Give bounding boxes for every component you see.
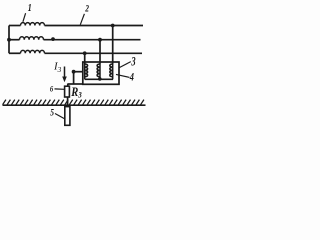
junction dot in-box bus <box>98 77 102 81</box>
wire: in-box neutral bus <box>85 78 113 80</box>
svg-text:R3: R3 <box>70 84 82 100</box>
terminal dot on middle line <box>51 37 55 41</box>
wire: resistor to ground <box>67 97 69 107</box>
wire: neutral down wire <box>73 72 75 84</box>
leader for label 1 <box>23 13 26 22</box>
wire: drop from top line to box <box>112 26 114 64</box>
svg-text:3: 3 <box>131 55 137 69</box>
leader for label 6 <box>55 88 65 90</box>
svg-text:I3: I3 <box>53 61 62 74</box>
svg-text:6: 6 <box>50 84 53 94</box>
wire: top bus line <box>45 25 144 27</box>
wire: middle bus line <box>44 39 141 41</box>
wire: drop from middle line to box <box>99 40 101 64</box>
winding 1c (bottom stator coil) <box>9 52 21 54</box>
wire: into resistor 6 <box>67 84 69 87</box>
svg-text:2: 2 <box>84 3 89 14</box>
grounding electrode (element 5) <box>65 107 70 126</box>
leader for label 4 <box>116 74 130 77</box>
wire: bottom bus line <box>45 52 143 54</box>
svg-text:1: 1 <box>28 2 32 15</box>
wire: bar to resistor branch <box>68 83 83 85</box>
junction dot middle line <box>98 38 102 42</box>
winding 1a (top stator coil) <box>9 25 21 27</box>
wire: drop from bottom line to box <box>84 53 86 63</box>
coil B inside box <box>99 64 101 80</box>
wire: stub from node to box left edge <box>74 71 83 73</box>
coil A inside box <box>84 64 86 80</box>
box (transformer 3) <box>83 62 119 84</box>
junction dot top line <box>111 24 115 28</box>
junction dot neutral node <box>72 70 76 74</box>
ground surface line <box>3 104 146 106</box>
current arrow I3 <box>62 67 67 83</box>
svg-text:4: 4 <box>129 72 134 85</box>
leader for label 2 <box>80 14 84 25</box>
coil C inside box <box>112 64 114 80</box>
leader for label 5 <box>55 114 65 120</box>
junction dot bottom line <box>83 51 87 55</box>
svg-text:5: 5 <box>50 107 54 118</box>
resistor R3 (element 6) <box>65 86 70 97</box>
junction dot on left bus <box>7 38 11 42</box>
ground hatching <box>3 100 144 105</box>
leader for label 3 <box>119 62 131 68</box>
winding 1b (middle stator coil) <box>9 39 20 41</box>
wire: left bus vertical <box>8 26 10 54</box>
